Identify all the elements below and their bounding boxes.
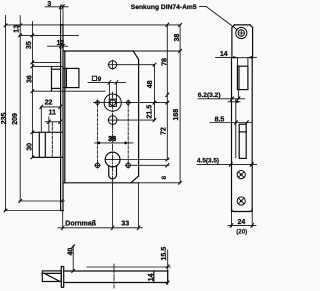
latch top edge + extension [32, 65, 63, 67]
deadbolt side view [239, 124, 246, 158]
svg-text:38: 38 [174, 34, 181, 42]
follower centerline [94, 102, 132, 104]
screw hole middle [108, 116, 117, 125]
screw2 extension [117, 119, 154, 121]
svg-text:14: 14 [220, 51, 228, 58]
follower extension to 72/48 dims [132, 102, 169, 104]
svg-text:36: 36 [26, 75, 33, 83]
svg-text:33: 33 [121, 221, 129, 228]
screw hole top [109, 61, 117, 69]
bottom view cylinder axis [113, 264, 115, 288]
extension for 11 [48, 117, 50, 132]
chain dim line left 35/36/30 [31, 22, 33, 158]
svg-text:6.2(3.2): 6.2(3.2) [198, 92, 221, 99]
svg-text:21.5: 21.5 [147, 105, 154, 119]
side view top lug [232, 25, 253, 58]
side screw upper [237, 171, 245, 179]
side view main plate [232, 58, 253, 212]
leader line [200, 6, 238, 30]
bottom view latch [42, 271, 61, 282]
extension for 22 [40, 107, 42, 132]
svg-text:78: 78 [162, 58, 169, 66]
svg-text:24: 24 [238, 219, 246, 226]
cylinder extension to 72 dim [120, 159, 169, 161]
svg-text:22: 22 [45, 100, 53, 107]
svg-text:48: 48 [147, 80, 154, 88]
deadbolt front view [32, 132, 63, 157]
deadbolt dashed retracted line [51, 123, 53, 157]
lug screw [236, 27, 247, 38]
209 bottom extension [19, 200, 64, 202]
latch bolt front view [52, 66, 79, 91]
case bottom projection line [139, 182, 181, 184]
case top projection line [133, 50, 180, 52]
Dornmass dimension [62, 211, 64, 230]
13 extension [19, 34, 78, 36]
dim line 78/72 [166, 25, 168, 160]
follower side hole left [96, 101, 100, 105]
dim line 235 [5, 16, 7, 211]
dashed hole link left [97, 105, 99, 164]
bottom view case [64, 271, 168, 283]
svg-text:209: 209 [12, 113, 19, 125]
svg-text:30: 30 [27, 143, 34, 151]
svg-text:Senkung DIN74-Am5: Senkung DIN74-Am5 [131, 4, 197, 11]
svg-text:35: 35 [26, 41, 33, 49]
235 bottom extension [5, 210, 64, 212]
svg-text:168: 168 [173, 109, 180, 121]
follower nut [104, 94, 121, 111]
dim line 13/209 [19, 16, 21, 202]
main vertical axis dash-dot [112, 92, 114, 184]
svg-text:15.5: 15.5 [161, 247, 168, 261]
cylinder side hole extension [131, 164, 169, 166]
cylinder side hole left [95, 163, 99, 167]
cylinder side hole right [126, 163, 130, 167]
square 9 dimension [92, 76, 96, 80]
svg-text:8: 8 [161, 176, 168, 180]
svg-text:38: 38 [108, 136, 116, 143]
latch side view [237, 66, 248, 89]
lock case outline [63, 51, 139, 183]
follower axis side view [228, 101, 240, 103]
dim 15.5 bottom view [167, 250, 169, 285]
svg-text:Dornmaß: Dornmaß [65, 221, 96, 228]
svg-text:4.5(3.5): 4.5(3.5) [197, 158, 219, 165]
cylinder hole euro profile [105, 152, 120, 179]
extension line 35-end [32, 61, 61, 63]
svg-text:14: 14 [148, 273, 155, 281]
dim 40 bottom view [72, 245, 74, 271]
svg-text:(20): (20) [236, 229, 247, 236]
svg-text:72: 72 [161, 127, 168, 135]
dashed hole link right [127, 105, 129, 164]
bottom view faceplate bar [61, 267, 63, 288]
faceplate front view [61, 25, 63, 211]
follower side hole right [126, 101, 130, 105]
svg-text:40: 40 [68, 248, 75, 256]
wire projection top faceplate line [6, 24, 181, 26]
svg-text:13: 13 [13, 25, 20, 33]
extra ref line [235, 99, 237, 158]
latch bottom edge + extension [32, 90, 105, 92]
side screw lower [237, 197, 245, 205]
dim line 48/21.5 [154, 65, 156, 120]
screw1 extension line [117, 64, 155, 66]
svg-text:11: 11 [49, 110, 57, 117]
dim 24 bottom side view [231, 212, 233, 228]
dim line 168/38 [179, 25, 181, 183]
side plate neck lines [236, 58, 238, 66]
svg-text:235: 235 [1, 113, 8, 125]
